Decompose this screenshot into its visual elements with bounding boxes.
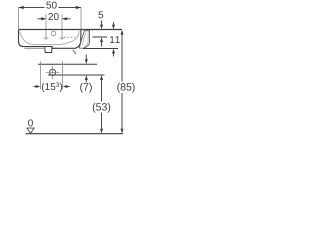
- dimension 50 label: [46, 2, 56, 9]
- tap hole cross left in front view: [44, 37, 49, 39]
- dimension (15^3) left extension line: [40, 61, 42, 89]
- line A (tap level upper): [38, 63, 97, 65]
- dimension (7) label: [80, 83, 92, 93]
- dimension (85) up arrow at rim: [121, 30, 124, 35]
- dimension 20 right arrow stem: [67, 18, 71, 20]
- dimension 5 label: [98, 11, 103, 18]
- datum 0 label: [28, 119, 33, 126]
- extension line left of 50: [18, 8, 20, 30]
- dimension 11 down arrow: [113, 22, 115, 25]
- dimension 11 label: [110, 36, 120, 43]
- washbasin lower lip line left: [25, 47, 45, 49]
- hidden edge dashed in front view: [64, 36, 76, 38]
- dimension 20 left arrow: [38, 18, 42, 20]
- dimension (85) line lower part: [121, 93, 123, 129]
- datum triangle: [27, 128, 34, 133]
- dimension (15^3) right extension line: [62, 61, 64, 89]
- washbasin front view outline: [19, 30, 82, 49]
- dimension (53) label: [93, 103, 110, 113]
- dimension (85) line upper part: [121, 34, 123, 81]
- dimension 5 up arrow: [100, 37, 103, 42]
- dimension (15^3) right arrow: [63, 85, 68, 88]
- extension line right of 20 down to tap cross: [61, 14, 63, 40]
- tap hole cross right in front view: [60, 37, 65, 39]
- dimension 5 down arrow: [101, 21, 103, 25]
- dimension (53) up arrow at line B: [100, 75, 103, 80]
- dimension 50 line: [19, 7, 82, 9]
- dimension 11 up arrow: [112, 49, 115, 54]
- tap hole circle with cross: [50, 69, 56, 75]
- dimension (15^3) left arrow: [34, 86, 37, 88]
- dimension (53) line lower part: [101, 113, 103, 130]
- extension line right of 50: [80, 8, 82, 30]
- line B (tap level lower): [48, 74, 105, 76]
- dimension (15^3) label: [42, 82, 62, 92]
- extension line left of 20 down to tap cross: [45, 14, 47, 40]
- dimension (53) down arrow at floor: [100, 129, 103, 134]
- dimension (53) line upper part: [101, 80, 103, 102]
- line L2 (5 below rim): [93, 36, 108, 38]
- dimension (7) up arrow: [85, 75, 88, 80]
- dimension (7) down arrow: [85, 55, 87, 60]
- dimension 20 label: [48, 13, 58, 20]
- overflow hole circle: [51, 31, 56, 36]
- side view outer profile: [79, 31, 89, 49]
- dimension 50 arrowheads: [19, 6, 82, 9]
- washbasin interior bowl line: [20, 31, 80, 45]
- dimension (85) label: [117, 83, 134, 93]
- floor line: [26, 133, 124, 135]
- side view inner profile: [82, 31, 88, 47]
- dimension (85) down arrow at floor: [121, 129, 124, 134]
- drain fitting box: [45, 47, 52, 53]
- line L3 (11 level): [83, 48, 118, 50]
- pedestal hint diagonal: [73, 50, 76, 54]
- washbasin front view rim: [19, 29, 123, 31]
